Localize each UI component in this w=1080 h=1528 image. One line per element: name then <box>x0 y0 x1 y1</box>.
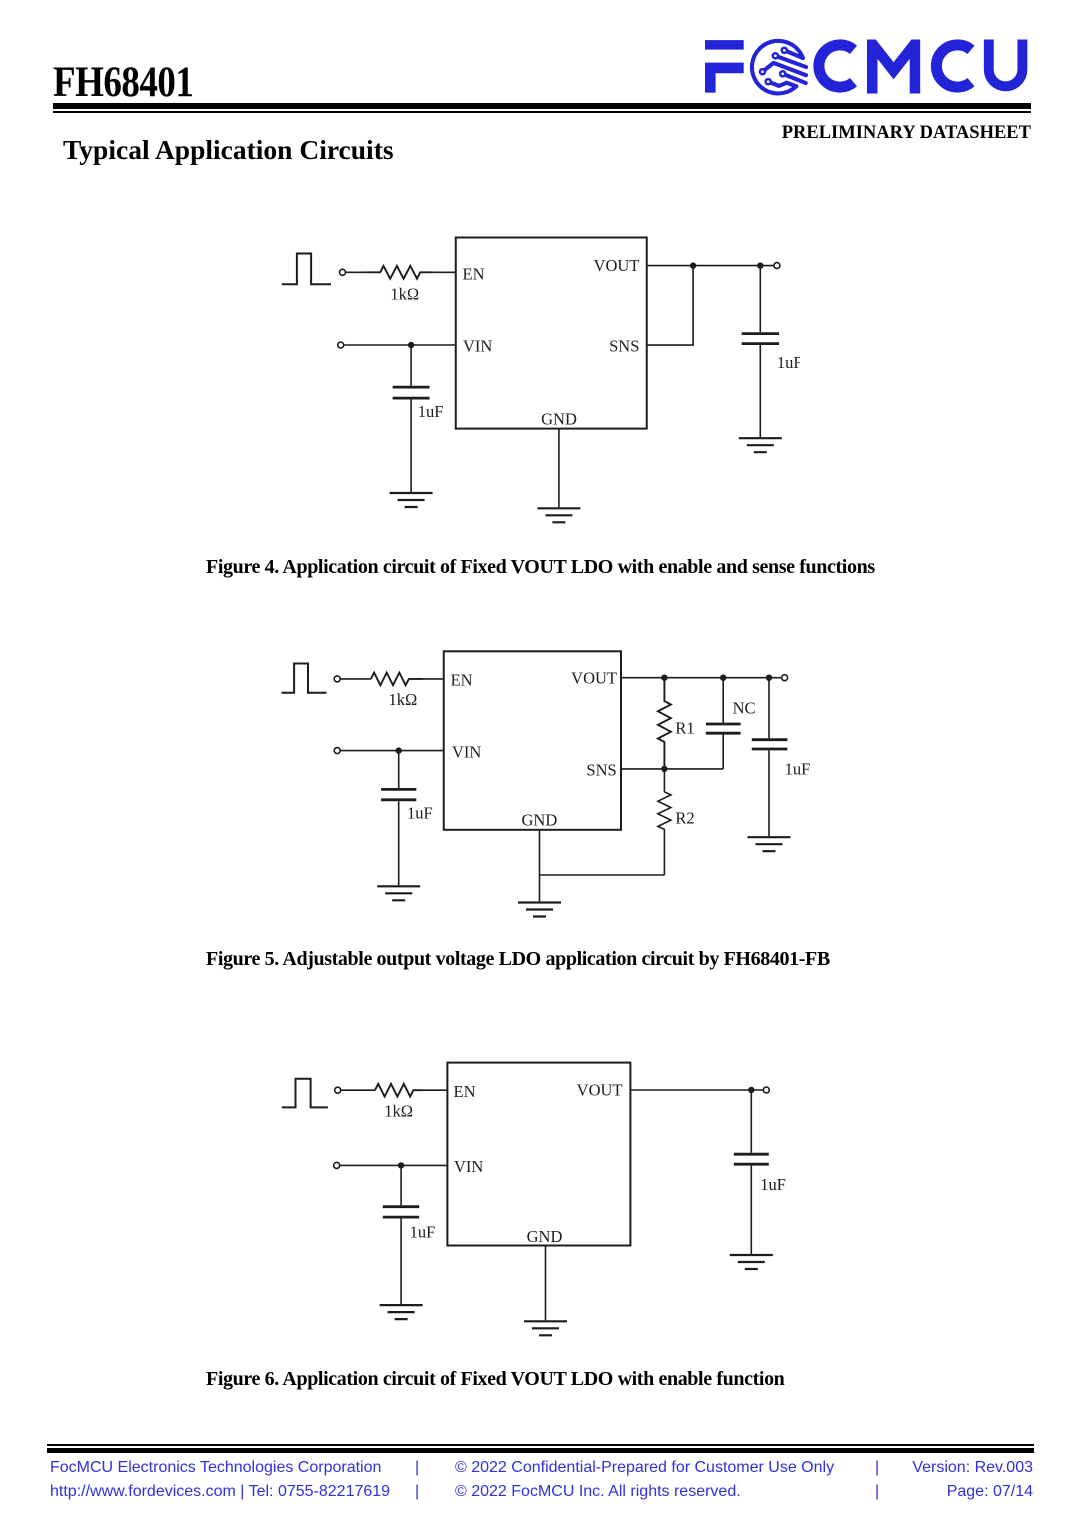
capacitor C4 bottom lead <box>768 750 770 836</box>
wire SNS feedback <box>647 266 693 346</box>
resistor R2 <box>658 769 671 875</box>
wire EN input to resistor <box>340 678 371 680</box>
capacitor C3 top lead <box>398 751 400 788</box>
header part number FH68401 <box>53 61 193 104</box>
footer row 1 <box>50 1460 381 1476</box>
capacitor C6 top lead <box>750 1090 752 1153</box>
wire VIN input to pin <box>340 1164 448 1166</box>
wire resistor to EN pin <box>423 678 444 680</box>
FIGURE 5 SCHEMATIC <box>270 645 810 923</box>
FIGURE 6 SCHEMATIC <box>270 1055 790 1345</box>
caption figure 4 <box>206 557 875 577</box>
logo letter U <box>989 40 1023 87</box>
label 1kΩ <box>389 690 418 709</box>
junction SNS R1 R2 <box>661 766 667 772</box>
caption figure 6 <box>206 1369 784 1389</box>
pin label VOUT <box>594 256 640 275</box>
pin label VOUT <box>577 1081 623 1100</box>
terminal VOUT output <box>774 263 780 269</box>
label C3 1uF <box>407 804 433 823</box>
caption figure 5 <box>206 949 830 969</box>
capacitor NC plates <box>706 724 741 733</box>
svg-text:SNS: SNS <box>609 337 639 356</box>
capacitor C2 top lead <box>759 266 761 333</box>
terminal VOUT output <box>782 675 788 681</box>
logo letter C2 <box>936 45 971 87</box>
capacitor C2 plates <box>742 334 779 344</box>
ground input capacitor <box>380 1305 423 1319</box>
label 1kΩ <box>390 285 419 304</box>
pulse source symbol <box>282 254 331 285</box>
logo letter C <box>819 45 854 87</box>
svg-text:EN: EN <box>463 264 485 283</box>
pin label VIN <box>463 337 492 356</box>
wire GND pin <box>539 830 541 902</box>
wire EN input to resistor <box>341 1089 375 1091</box>
label R1 <box>675 719 694 738</box>
terminal VIN input <box>334 748 340 754</box>
wire SNS <box>621 768 723 770</box>
terminal EN input <box>340 269 346 275</box>
capacitor C5 plates <box>383 1207 419 1217</box>
wire resistor to EN pin <box>423 1089 447 1091</box>
junction VOUT output capacitor <box>766 675 772 681</box>
svg-text:NC: NC <box>733 698 756 717</box>
ground GND pin <box>518 903 561 917</box>
terminal VIN input <box>334 1162 340 1168</box>
capacitor NC top lead <box>722 678 724 723</box>
pin label EN <box>454 1082 476 1101</box>
label C6 1uF <box>760 1175 786 1194</box>
wire R2 to ground node <box>540 874 665 876</box>
ground GND pin <box>537 508 580 522</box>
pin label EN <box>463 264 485 283</box>
wire VIN input to pin <box>344 344 456 346</box>
capacitor C2 bottom lead <box>759 345 761 437</box>
capacitor C6 bottom lead <box>750 1166 752 1254</box>
wire resistor to EN pin <box>433 271 456 273</box>
terminal EN input <box>335 1087 341 1093</box>
pin label SNS <box>609 337 639 356</box>
label NC <box>733 698 756 717</box>
IC box FH68401 <box>447 1063 630 1246</box>
svg-text:GND: GND <box>522 810 558 829</box>
resistor 1kΩ <box>371 673 423 686</box>
header rule thick <box>53 103 1031 108</box>
logo letter F <box>705 40 744 93</box>
pin label SNS <box>586 761 616 780</box>
label C2 1uF <box>777 353 803 372</box>
svg-text:SNS: SNS <box>586 761 616 780</box>
ground input capacitor <box>390 493 433 507</box>
label C1 1uF <box>418 402 444 421</box>
pin label EN <box>451 670 473 689</box>
label R2 <box>675 808 694 827</box>
capacitor C1 bottom lead <box>410 400 412 493</box>
footer row 2 <box>50 1484 390 1500</box>
IC box FH68401 <box>444 651 621 830</box>
capacitor C5 bottom lead <box>400 1219 402 1305</box>
svg-text:EN: EN <box>454 1082 476 1101</box>
svg-text:1uF: 1uF <box>785 759 810 778</box>
wire GND pin <box>558 429 560 508</box>
capacitor NC bottom lead <box>722 735 724 769</box>
pin label GND <box>541 410 577 429</box>
ground output capacitor <box>739 438 782 452</box>
wire VOUT <box>621 677 782 679</box>
wire VOUT <box>630 1089 763 1091</box>
svg-text:1uF: 1uF <box>410 1222 436 1241</box>
svg-text:1kΩ: 1kΩ <box>389 690 418 709</box>
pulse source symbol <box>282 1079 328 1108</box>
ground input capacitor <box>377 886 420 900</box>
capacitor C3 plates <box>381 789 416 799</box>
pin label VIN <box>454 1157 483 1176</box>
junction VOUT NC capacitor <box>720 675 726 681</box>
svg-text:1uF: 1uF <box>407 804 433 823</box>
svg-text:1uF: 1uF <box>418 402 444 421</box>
ground output capacitor <box>748 837 791 851</box>
pin label VIN <box>452 742 481 761</box>
capacitor C4 plates <box>752 740 788 749</box>
svg-text:GND: GND <box>527 1227 563 1246</box>
terminal VIN input <box>338 342 344 348</box>
junction VOUT R1 <box>661 675 667 681</box>
svg-text:VOUT: VOUT <box>571 668 617 687</box>
svg-text:VOUT: VOUT <box>577 1081 623 1100</box>
footer rule thin <box>47 1444 1034 1446</box>
wire GND pin <box>545 1246 547 1321</box>
footer rule thick <box>47 1448 1034 1453</box>
subtitle PRELIMINARY DATASHEET <box>0 124 1031 143</box>
resistor R1 <box>658 678 671 769</box>
section title <box>63 136 394 164</box>
capacitor C4 top lead <box>768 678 770 739</box>
svg-text:R1: R1 <box>675 719 694 738</box>
svg-text:GND: GND <box>541 410 577 429</box>
svg-text:1uF: 1uF <box>777 353 800 372</box>
svg-text:VIN: VIN <box>463 337 492 356</box>
junction VOUT capacitor <box>748 1087 754 1093</box>
pin label GND <box>527 1227 563 1246</box>
header rule thin <box>53 111 1031 113</box>
wire VOUT <box>647 265 774 267</box>
FIGURE 4 SCHEMATIC <box>270 228 800 528</box>
svg-text:VOUT: VOUT <box>594 256 640 275</box>
label C4 1uF <box>785 759 811 778</box>
resistor 1kΩ <box>367 266 433 279</box>
svg-text:VIN: VIN <box>454 1157 483 1176</box>
terminal VOUT output <box>763 1087 769 1093</box>
label C5 1uF <box>410 1222 436 1241</box>
junction VOUT capacitor <box>757 262 763 268</box>
wire EN input to resistor <box>346 271 368 273</box>
capacitor C1 top lead <box>410 345 412 386</box>
ground GND pin <box>524 1321 567 1335</box>
svg-text:R2: R2 <box>675 808 694 827</box>
svg-text:EN: EN <box>451 670 473 689</box>
capacitor C1 plates <box>393 387 430 398</box>
pin label VOUT <box>571 668 617 687</box>
wire VIN input to pin <box>340 750 444 752</box>
junction VIN capacitor <box>398 1162 404 1168</box>
ground output capacitor <box>730 1255 773 1269</box>
terminal EN input <box>334 676 340 682</box>
junction VIN capacitor <box>396 747 402 753</box>
junction VOUT SNS <box>690 262 696 268</box>
svg-text:1uF: 1uF <box>760 1175 786 1194</box>
pin label GND <box>522 810 558 829</box>
junction VIN capacitor <box>408 342 414 348</box>
capacitor C6 plates <box>734 1154 769 1164</box>
svg-text:1kΩ: 1kΩ <box>384 1102 413 1121</box>
resistor 1kΩ <box>375 1084 423 1097</box>
svg-text:VIN: VIN <box>452 742 481 761</box>
label 1kΩ <box>384 1102 413 1121</box>
svg-text:1kΩ: 1kΩ <box>390 285 419 304</box>
logo circuit-ball O <box>752 41 806 94</box>
logo FOCMCU <box>698 30 1038 100</box>
capacitor C3 bottom lead <box>398 801 400 885</box>
pulse source symbol <box>282 664 327 693</box>
IC box FH68401 <box>456 238 647 429</box>
capacitor C5 top lead <box>400 1165 402 1205</box>
